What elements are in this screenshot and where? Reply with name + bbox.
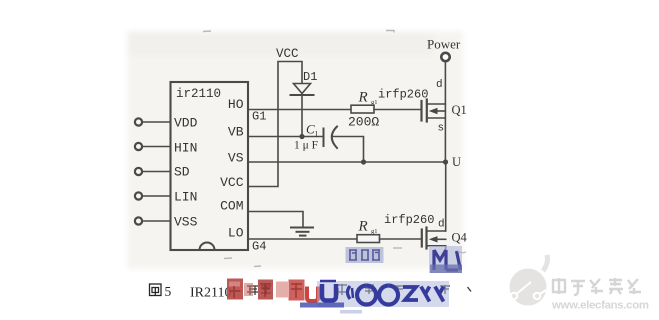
svg-text:VB: VB: [228, 125, 244, 140]
svg-text:VCC: VCC: [276, 47, 299, 61]
terminal SD input: [135, 168, 170, 175]
wire HO to Rg1: [248, 109, 351, 111]
svg-text:SD: SD: [174, 165, 190, 180]
power terminal: [441, 53, 449, 61]
wire LO to Rg4: [248, 238, 357, 240]
terminal LIN input: [135, 192, 170, 199]
wire Rg1 to Q1 gate: [374, 109, 421, 111]
wire VB: [248, 136, 323, 138]
svg-text:VDD: VDD: [174, 116, 198, 131]
svg-text:LO: LO: [228, 226, 244, 241]
svg-text:VS: VS: [228, 151, 244, 166]
svg-text:g1: g1: [371, 228, 378, 235]
svg-text:VSS: VSS: [174, 215, 198, 230]
resistor Rg4 body: [357, 235, 380, 243]
svg-text:LIN: LIN: [174, 190, 197, 205]
caption hidden CJK glyph strokes: [247, 284, 471, 295]
wire VS to node U: [248, 161, 446, 163]
watermark blue glyphs upper: [346, 246, 463, 273]
elecfans logo bottom right: [510, 255, 548, 306]
svg-text:COM: COM: [220, 199, 243, 214]
svg-text:g1: g1: [371, 99, 378, 106]
svg-text:Q1: Q1: [452, 103, 467, 117]
svg-text:G4: G4: [252, 240, 266, 254]
wire COM to ground: [248, 212, 303, 228]
wire node U down to Q4 drain: [445, 162, 447, 231]
wire Power to Q1 to node U: [444, 62, 446, 162]
svg-text:5: 5: [165, 284, 172, 299]
terminal VDD input: [135, 118, 170, 125]
diode D1: [291, 84, 314, 96]
svg-text:D1: D1: [303, 70, 317, 84]
svg-text:d: d: [436, 79, 443, 91]
junction dot node U: [443, 159, 448, 164]
wire C1 to VS branch: [333, 137, 364, 163]
svg-text:1: 1: [315, 130, 319, 139]
svg-text:HO: HO: [228, 97, 244, 112]
svg-text:R: R: [358, 219, 368, 235]
junction dot C1 branch on VS wire: [361, 159, 366, 164]
watermark blue row: [300, 281, 449, 314]
caption row: [150, 284, 232, 301]
svg-text:irfp260: irfp260: [378, 88, 428, 102]
faint scan marks: [203, 31, 466, 267]
svg-text:VCC: VCC: [220, 175, 244, 190]
terminal HIN input: [135, 143, 170, 150]
svg-text:Q4: Q4: [452, 231, 468, 245]
capacitor C1 plates: [324, 127, 338, 149]
svg-text:s: s: [438, 123, 445, 135]
svg-text:R: R: [358, 90, 368, 106]
svg-text:irfp260: irfp260: [384, 213, 434, 227]
svg-text:d: d: [438, 219, 445, 231]
svg-text:1 μ F: 1 μ F: [294, 140, 318, 152]
terminal VSS input: [135, 217, 170, 224]
IC U1 ir2110 body: [171, 82, 249, 250]
elecfans CJK text: [552, 278, 641, 295]
watermark red cluster: [227, 279, 318, 302]
wire D1 cathode to VB junction: [301, 95, 303, 137]
svg-text:HIN: HIN: [174, 141, 197, 156]
junction dot VB-D1: [299, 134, 304, 139]
svg-text:200Ω: 200Ω: [348, 115, 379, 130]
svg-text:G1: G1: [252, 110, 266, 124]
ground symbol: [291, 228, 313, 236]
resistor Rg1 body: [351, 105, 374, 113]
wire Q4 source down: [445, 246, 447, 264]
svg-text:ir2110: ir2110: [176, 87, 221, 101]
svg-text:Power: Power: [427, 37, 461, 52]
svg-text:U: U: [452, 155, 461, 169]
wire VCC pin up to VCC rail: [248, 62, 302, 187]
wire Rg4 to Q4 gate: [380, 238, 422, 240]
transistor Q4: [422, 228, 446, 249]
svg-text:www.elecfans.com: www.elecfans.com: [551, 300, 649, 312]
caption CJK tu5: [150, 284, 162, 296]
svg-text:IR2110: IR2110: [190, 286, 231, 301]
transistor Q1: [422, 100, 446, 122]
